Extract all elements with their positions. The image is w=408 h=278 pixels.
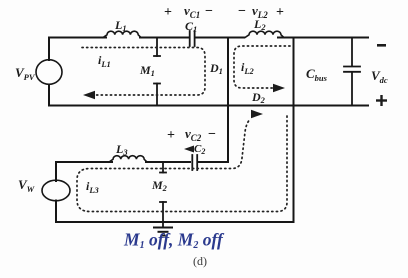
svg-text:VW: VW — [18, 177, 36, 194]
arrow of loop iL2 — [273, 84, 285, 92]
current loop iL3 big dotted — [77, 116, 287, 212]
svg-text:+: + — [164, 5, 172, 20]
source VW — [42, 180, 70, 201]
svg-text:iL1: iL1 — [98, 53, 111, 69]
inductor L3 — [109, 156, 147, 162]
capacitor Cbus — [344, 38, 360, 106]
transistor M2 upper stub — [160, 162, 166, 173]
wire bottom section top rail — [56, 161, 112, 163]
svg-text:−: − — [208, 127, 216, 142]
wire left branch of VW lower — [55, 201, 57, 223]
svg-text:−: − — [205, 4, 213, 19]
svg-text:iL2: iL2 — [241, 60, 255, 76]
wire left branch upper — [48, 38, 50, 61]
ground — [154, 228, 172, 236]
inductor L2 — [245, 31, 284, 37]
wire C2 to D2 node — [199, 161, 229, 163]
source Vpv — [36, 60, 62, 85]
svg-text:+: + — [167, 128, 175, 143]
svg-text:+: + — [276, 5, 284, 20]
wire left branch lower — [48, 85, 50, 106]
svg-text:VPV: VPV — [15, 65, 36, 82]
label +vC1- — [164, 3, 213, 20]
svg-text:Cbus: Cbus — [306, 66, 328, 83]
svg-text:−: − — [238, 4, 246, 19]
capacitor C2 — [192, 155, 197, 170]
svg-text:L1: L1 — [114, 18, 127, 33]
capacitor C1 — [190, 31, 195, 46]
svg-text:C2: C2 — [194, 143, 205, 156]
svg-text:D2: D2 — [251, 90, 266, 105]
svg-text:L3: L3 — [115, 142, 128, 157]
transistor M2 lower stub — [160, 202, 166, 228]
label minus of Vdc — [377, 44, 386, 47]
svg-text:vC1: vC1 — [184, 3, 200, 20]
wire top rail L2 to right end — [278, 37, 368, 39]
svg-text:vC2: vC2 — [185, 126, 202, 143]
label -vL2+ — [238, 3, 284, 20]
svg-text:(d): (d) — [193, 254, 207, 268]
wire bottom rail of top section — [49, 105, 368, 107]
arrow of loop iL1 — [83, 91, 95, 99]
wire top rail C1 to L2 — [196, 37, 244, 39]
wire bottom rail of bottom section — [56, 221, 294, 223]
wire top rail L1 to C1 — [140, 37, 188, 39]
diode D1 branch — [227, 38, 229, 163]
current loop iL1 dotted — [82, 48, 205, 96]
svg-text:M2: M2 — [151, 178, 168, 193]
svg-text:M1: M1 — [139, 63, 155, 78]
transistor M1 upper stub — [154, 38, 160, 57]
svg-text:M1 off, M2 off: M1 off, M2 off — [123, 230, 225, 252]
arrow of loop iL3 through D2 — [251, 110, 263, 118]
label +vC2- — [167, 126, 216, 143]
inductor L1 — [103, 31, 141, 37]
wire left branch of VW upper — [55, 162, 57, 181]
svg-text:C1: C1 — [185, 19, 197, 34]
label plus of Vdc — [376, 95, 387, 106]
transistor M1 lower stub — [154, 84, 160, 106]
wire top rail left segment — [49, 37, 106, 39]
svg-text:Vdc: Vdc — [371, 68, 388, 85]
arrow near C2 — [184, 146, 194, 153]
svg-text:iL3: iL3 — [86, 179, 100, 195]
svg-text:D1: D1 — [209, 61, 223, 76]
current loop iL2 dotted — [234, 46, 290, 88]
wire right rail — [293, 38, 295, 223]
wire L3 to C2 — [146, 161, 190, 163]
